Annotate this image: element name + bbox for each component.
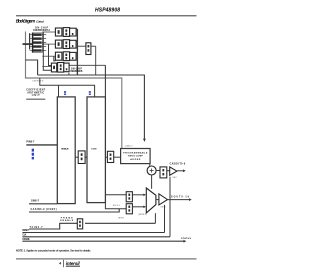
svg-text:TWOS COMP: TWOS COMP <box>128 156 144 158</box>
svg-text:OEG: OEG <box>161 207 166 209</box>
svg-text:UNIT: UNIT <box>32 95 41 97</box>
svg-text:GIN0-7: GIN0-7 <box>31 199 40 202</box>
svg-text:(NOTE 1): (NOTE 1) <box>139 214 147 216</box>
svg-text:WEN: WEN <box>118 218 124 220</box>
svg-text:CLK: CLK <box>22 235 26 237</box>
svg-text:HSP48908: HSP48908 <box>95 7 120 13</box>
svg-text:MXSL: MXSL <box>113 205 121 207</box>
svg-text:CAS0-7: CAS0-7 <box>125 145 133 148</box>
svg-text:FRAME: FRAME <box>22 238 30 241</box>
svg-text:STATUS: STATUS <box>181 237 192 240</box>
svg-text:PIN0-7: PIN0-7 <box>26 140 35 143</box>
svg-text:8T DELAY: 8T DELAY <box>61 147 69 150</box>
svg-text:PROGRAMMABLE: PROGRAMMABLE <box>123 151 148 154</box>
svg-text:OEC: OEC <box>172 177 177 179</box>
svg-text:CM BUS 8: CM BUS 8 <box>32 81 44 83</box>
svg-text:SUM: SUM <box>91 148 96 150</box>
svg-text:ARITHMETIC: ARITHMETIC <box>27 91 44 94</box>
svg-text:CASIN0-9 (COEF): CASIN0-9 (COEF) <box>31 208 57 211</box>
svg-text:(Continued): (Continued) <box>36 20 44 24</box>
svg-text:COEFFICIENT: COEFFICIENT <box>26 90 46 92</box>
svg-text:COEFFICIENT A: COEFFICIENT A <box>33 29 50 32</box>
svg-text:TCIN0-7: TCIN0-7 <box>30 227 44 229</box>
svg-text:REGISTER B: REGISTER B <box>70 71 82 73</box>
svg-text:ENABLE: ENABLE <box>60 219 74 222</box>
svg-text:CASOUT0-9: CASOUT0-9 <box>170 163 186 166</box>
svg-text:Block Diagram: Block Diagram <box>16 19 36 24</box>
svg-text:ADDER: ADDER <box>130 158 140 161</box>
svg-text:intersil: intersil <box>66 261 81 266</box>
svg-text:NOTE: 1. Applies to cascaded: NOTE: 1. Applies to cascaded mode of ope… <box>16 249 91 253</box>
svg-text:GOUT0-19: GOUT0-19 <box>171 197 190 199</box>
svg-text:RESET: RESET <box>22 230 29 232</box>
